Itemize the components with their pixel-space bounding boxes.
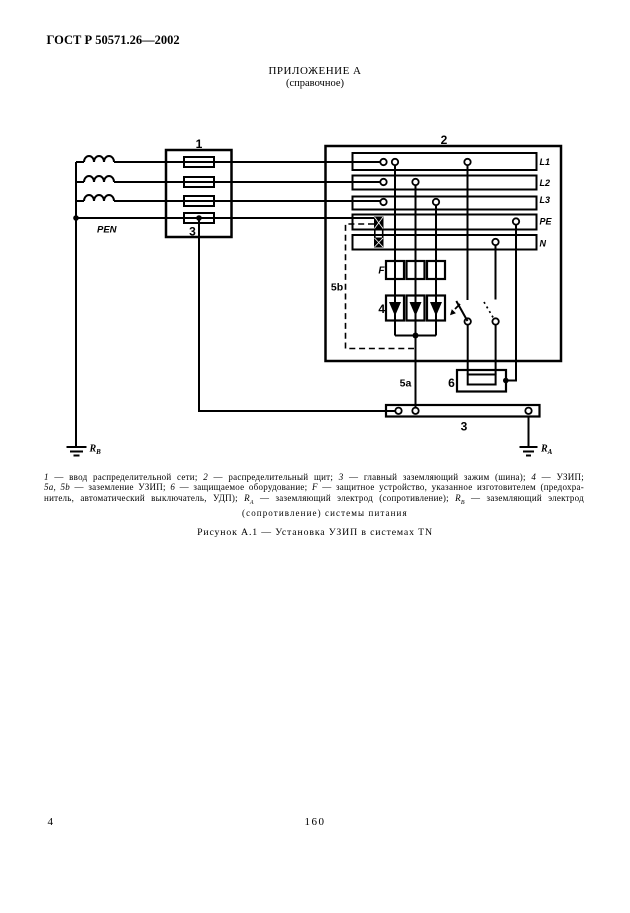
svg-text:RB: RB [89, 444, 102, 457]
svg-text:L3: L3 [540, 195, 551, 205]
svg-text:PE: PE [540, 217, 553, 227]
svg-text:PEN: PEN [97, 225, 118, 236]
svg-text:5a: 5a [400, 378, 412, 390]
svg-text:5b: 5b [331, 282, 343, 294]
svg-text:RA: RA [540, 444, 553, 457]
svg-text:3: 3 [189, 225, 196, 239]
svg-text:L2: L2 [540, 178, 551, 188]
svg-text:6: 6 [448, 376, 455, 390]
svg-text:2: 2 [441, 133, 448, 147]
svg-text:L1: L1 [540, 157, 551, 167]
svg-text:F: F [378, 266, 385, 277]
svg-text:1: 1 [196, 137, 203, 151]
svg-text:4: 4 [378, 302, 385, 316]
svg-text:N: N [540, 239, 547, 249]
svg-text:3: 3 [461, 420, 468, 434]
